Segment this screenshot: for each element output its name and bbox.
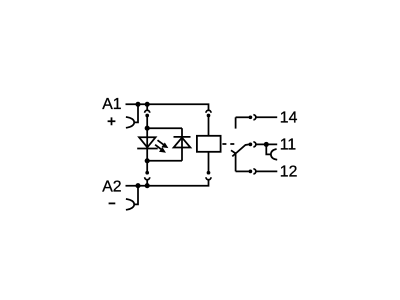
wire coil bottom to pin xyxy=(208,152,210,172)
protection diode D2 cathode bar xyxy=(174,136,191,138)
wire 12 line left xyxy=(236,170,249,172)
contact NO fixed contact stub (to 14) xyxy=(235,117,237,128)
wire NC contact to 12 line xyxy=(235,152,237,171)
contact movable arm xyxy=(232,144,249,156)
plug-in connector (pin) line 11 xyxy=(249,143,253,147)
plug-in connector (pin) line 14 xyxy=(249,115,253,119)
wire A1 node to socket xyxy=(146,104,148,110)
label + polarity xyxy=(108,117,116,125)
relay coil K1 xyxy=(197,136,221,152)
LED emission arrow 2 xyxy=(155,145,161,150)
dashed mechanical link coil to contact xyxy=(222,143,234,145)
svg-text:12: 12 xyxy=(280,164,298,181)
LED block top wire xyxy=(147,127,182,129)
LED emission arrow 1 xyxy=(158,140,164,145)
node LED block bottom xyxy=(145,158,150,163)
node on A1 line at clamp branch xyxy=(135,102,140,107)
svg-text:A1: A1 xyxy=(102,96,122,113)
plug-in connector (pin) above A2 at LED branch xyxy=(145,171,149,175)
wire 14 line left xyxy=(236,116,249,118)
wire socket to A2 node xyxy=(146,179,148,185)
plug-in connector (pin) at coil branch xyxy=(207,114,211,118)
wire clamp A2 to node xyxy=(134,186,138,205)
wire node 11 to clamp xyxy=(266,144,271,154)
protection diode D2 triangle xyxy=(174,138,191,148)
terminal clamp A1 xyxy=(126,117,134,128)
terminal clamp 11 xyxy=(271,149,277,160)
node on A2 line at clamp branch xyxy=(135,183,140,188)
node on line 11 at clamp branch xyxy=(264,142,269,147)
svg-text:A2: A2 xyxy=(102,178,121,195)
wire 11 line right xyxy=(256,143,277,145)
LED D1 branch wire xyxy=(146,128,148,161)
svg-text:14: 14 xyxy=(280,110,298,127)
wire pin to LED block top node xyxy=(146,116,148,128)
contact NC fixed contact tick xyxy=(231,150,236,153)
wire clamp A1 to node xyxy=(134,104,138,122)
plug-in connector (pin) line 12 xyxy=(249,170,253,174)
wire A1 top line to coil drop xyxy=(126,104,209,110)
svg-text:11: 11 xyxy=(280,137,297,154)
node on A2 line at LED branch xyxy=(145,183,150,188)
plug-in connector (socket) line 12 xyxy=(253,169,256,174)
node LED block top xyxy=(145,126,150,131)
wire A2 bottom line to coil rise xyxy=(126,179,209,185)
plug-in connector (socket) below A1 at LED branch xyxy=(145,110,150,113)
protection diode D2 branch wire xyxy=(181,128,183,161)
wire 14 line right xyxy=(256,116,277,118)
plug-in connector (socket) above A2 at LED branch xyxy=(145,177,150,180)
LED D1 cathode bar xyxy=(137,148,158,150)
plug-in connector (socket) above A2 at coil branch xyxy=(206,177,211,180)
plug-in connector (pin) below coil xyxy=(207,171,211,175)
plug-in connector (pin) at LED branch xyxy=(145,114,149,118)
plug-in connector (socket) line 11 xyxy=(253,142,256,147)
LED block bottom wire xyxy=(147,160,182,162)
terminal clamp A2 xyxy=(126,199,134,210)
LED D1 triangle xyxy=(139,137,156,147)
wire pin to coil top xyxy=(208,116,210,136)
plug-in connector (socket) below A1 at coil branch xyxy=(206,110,211,113)
label - polarity xyxy=(109,202,116,204)
plug-in connector (socket) line 14 xyxy=(253,115,256,120)
wire 12 line right xyxy=(256,170,277,172)
node on A1 line at LED branch xyxy=(145,102,150,107)
wire LED block bottom node to pin xyxy=(146,161,148,172)
